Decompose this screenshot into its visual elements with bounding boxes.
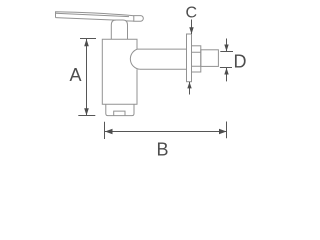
svg-text:A: A xyxy=(70,65,82,85)
svg-text:C: C xyxy=(186,5,198,22)
svg-text:B: B xyxy=(157,140,169,160)
svg-text:D: D xyxy=(234,52,247,72)
